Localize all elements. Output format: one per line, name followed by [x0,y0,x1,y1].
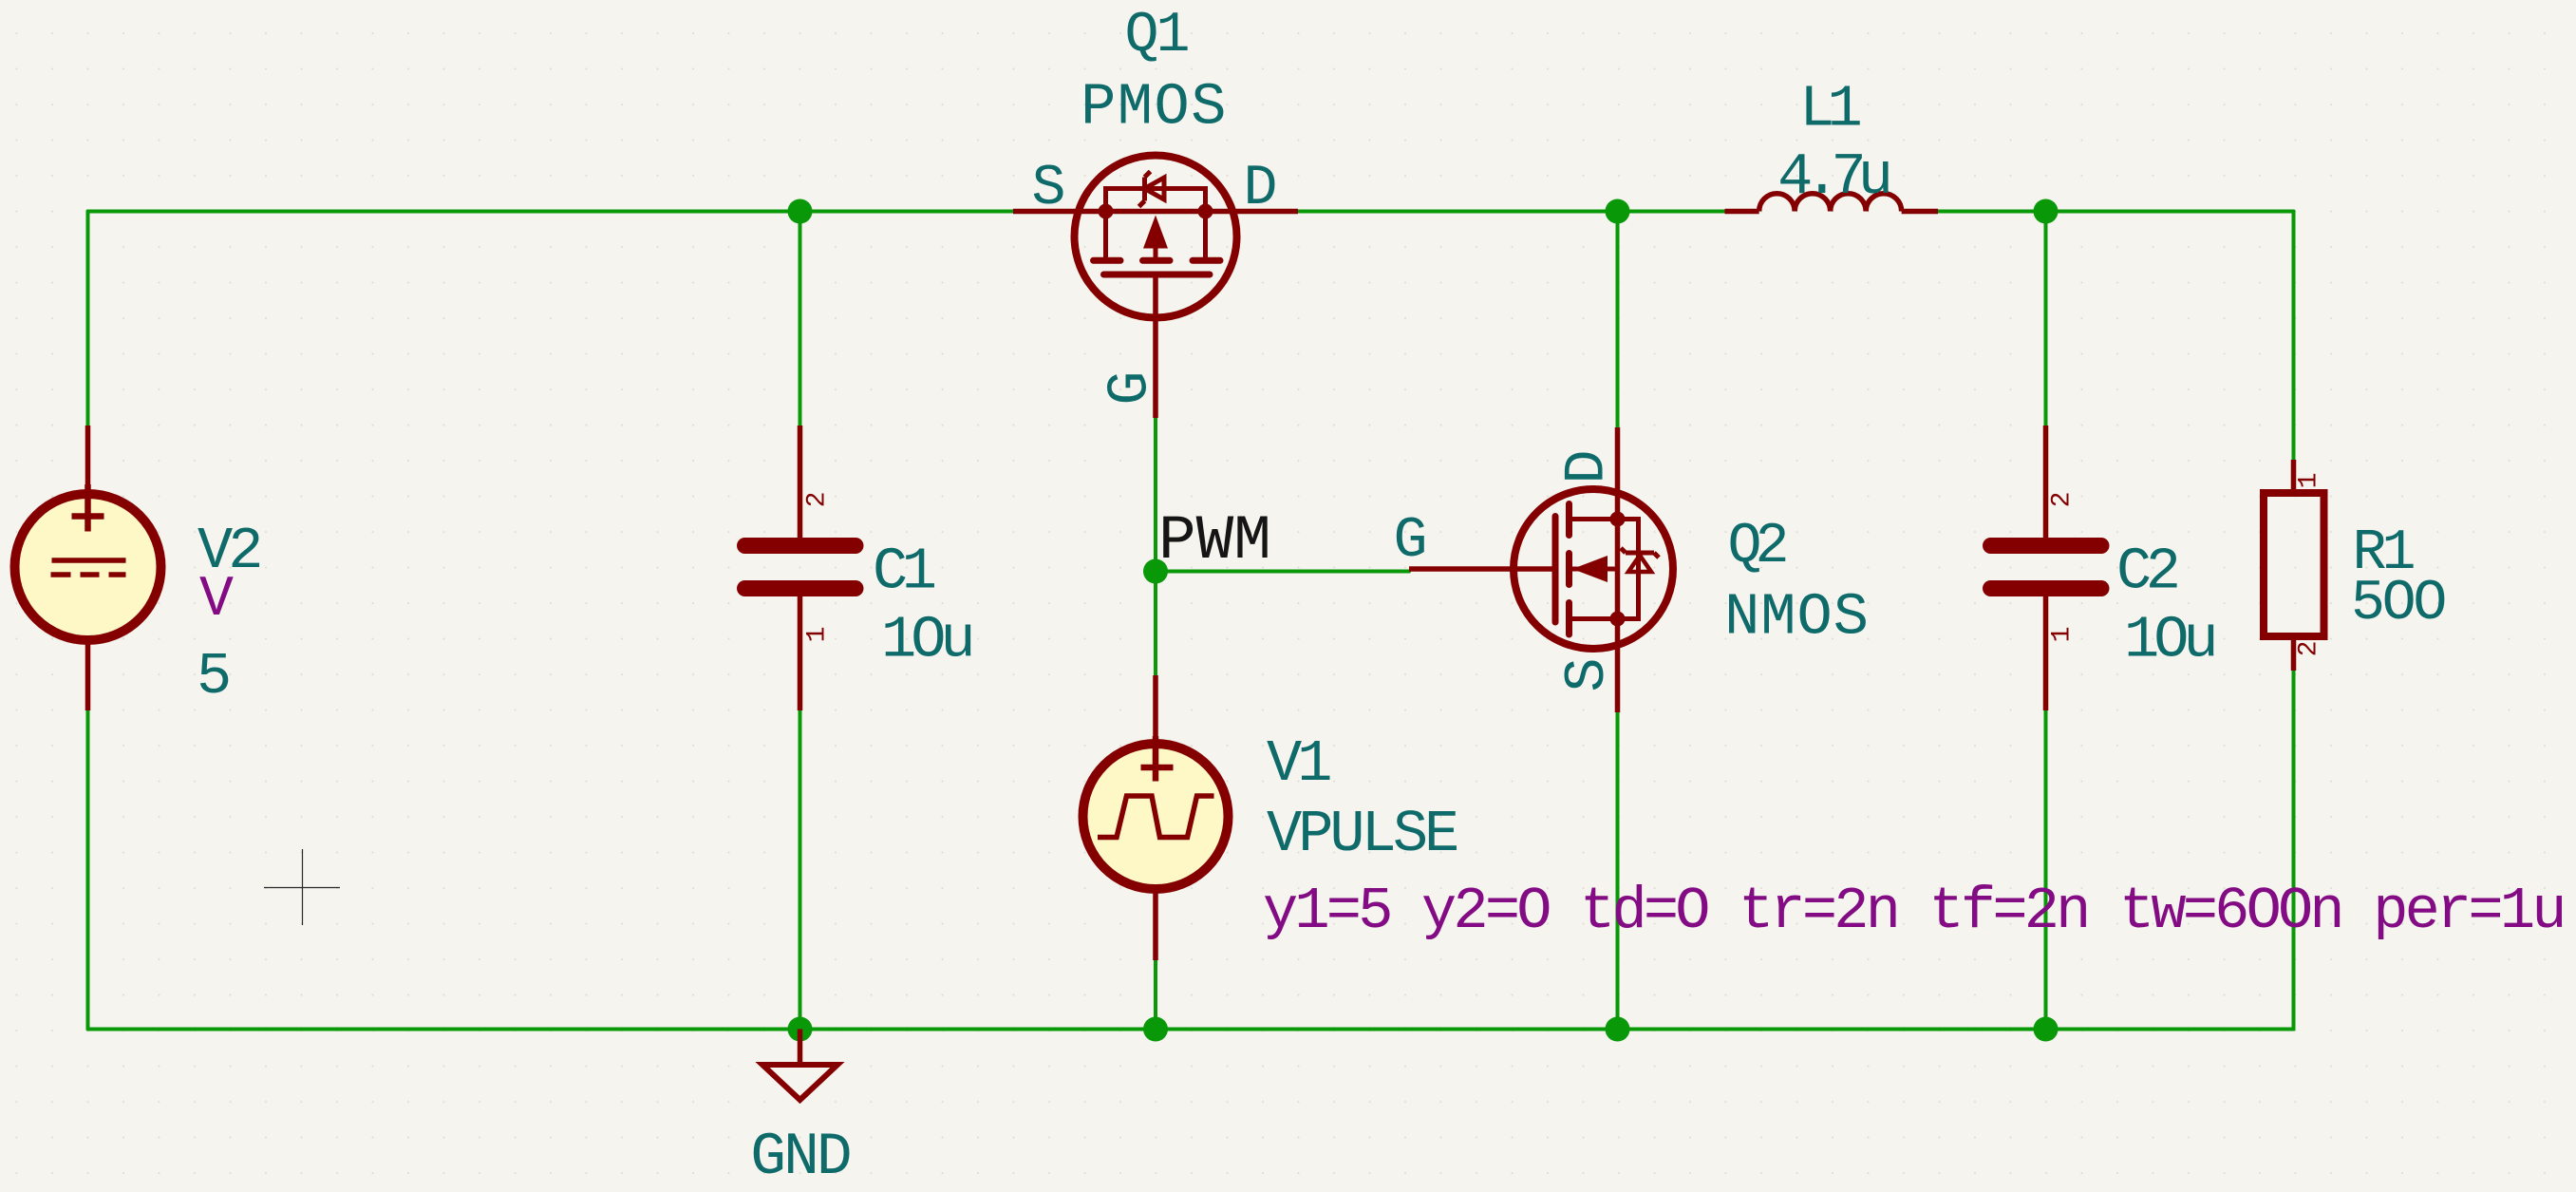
svg-text:1Ou: 1Ou [881,607,970,674]
svg-text:G: G [1100,370,1164,405]
wire PWM net horizontal [1156,570,1409,574]
svg-text:4.7u: 4.7u [1777,143,1889,211]
resistor R1 [2264,460,2324,671]
svg-text:C2: C2 [2116,539,2177,606]
cursor crosshair [264,849,340,925]
svg-text:PWM: PWM [1158,505,1271,577]
svg-text:V: V [199,568,234,633]
svg-text:D: D [1556,449,1621,483]
wire top rail [88,210,1727,214]
voltage source V2 [15,426,161,710]
inductor L1 [1725,194,1939,212]
svg-text:2: 2 [2048,492,2078,508]
junction bottom V1 [1143,1017,1168,1042]
ground symbol [762,1030,837,1101]
capacitor C2 [1991,426,2102,710]
svg-text:G: G [1393,509,1427,574]
voltage source V1 VPULSE [1083,675,1229,960]
svg-text:5: 5 [197,643,232,710]
svg-text:2: 2 [2295,641,2324,657]
svg-text:GND: GND [750,1124,850,1191]
svg-text:D: D [1243,157,1277,221]
svg-text:S: S [1031,157,1065,221]
wire left rail [86,212,90,1030]
wire Q2 branch [1616,212,1620,431]
transistor Q1 PMOS [1013,156,1298,419]
svg-text:PMOS: PMOS [1081,74,1228,142]
svg-text:1Ou: 1Ou [2124,607,2213,674]
svg-text:NMOS: NMOS [1724,584,1870,652]
junction bottom GND [788,1017,813,1042]
svg-text:2: 2 [803,492,833,508]
transistor Q2 NMOS [1409,427,1673,712]
svg-text:1: 1 [2295,473,2324,489]
svg-text:Q1: Q1 [1124,4,1188,68]
capacitor C1 [745,426,856,710]
svg-text:1: 1 [803,627,833,643]
wire C2 branch [2044,212,2048,429]
svg-text:1: 1 [2048,627,2078,643]
node PWM junction [1143,559,1168,584]
junction bottom Q2 [1606,1017,1630,1042]
junction top C1 [788,199,813,224]
svg-text:5OO: 5OO [2351,572,2444,636]
junction top Q2 [1606,199,1630,224]
svg-text:Q2: Q2 [1727,515,1785,579]
wire C1 branch [799,212,802,430]
wire bottom rail GND net [88,1028,2294,1031]
junction bottom C2 [2034,1017,2059,1042]
svg-text:L1: L1 [1799,76,1860,143]
svg-text:S: S [1556,657,1621,691]
svg-text:C1: C1 [873,539,935,606]
svg-text:y1=5 y2=O td=O tr=2n tf=2n tw=: y1=5 y2=O td=O tr=2n tf=2n tw=6OOn per=1… [1263,878,2564,945]
junction top C2 [2034,199,2059,224]
wire right rail to R1 [2292,212,2296,464]
svg-text:VPULSE: VPULSE [1267,801,1457,868]
svg-text:V1: V1 [1267,730,1330,798]
wire Q1 gate to V1 branch [1154,418,1157,678]
